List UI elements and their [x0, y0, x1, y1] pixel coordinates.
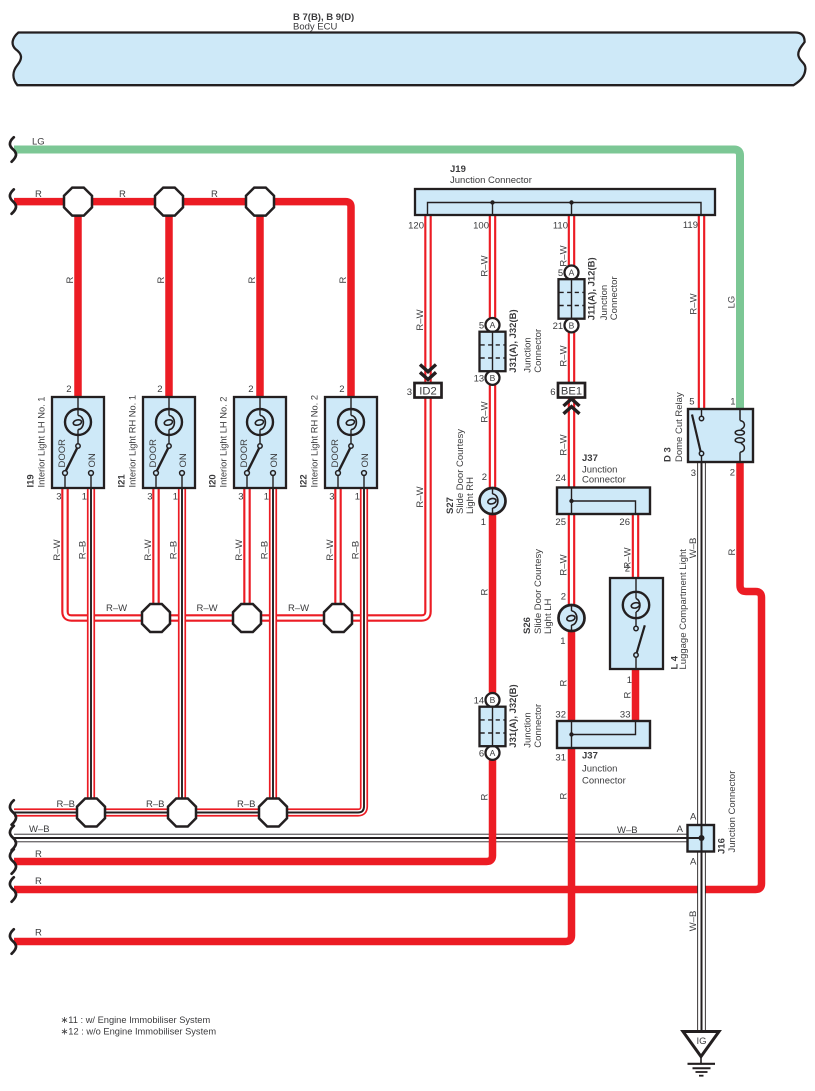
- svg-text:LG: LG: [32, 137, 45, 148]
- svg-text:A: A: [490, 320, 496, 330]
- svg-text:∗12 : w/o Engine Immobiliser S: ∗12 : w/o Engine Immobiliser System: [61, 1027, 217, 1037]
- svg-text:R–B: R–B: [57, 799, 75, 810]
- svg-text:R–B: R–B: [169, 541, 180, 559]
- svg-text:I19: I19: [26, 474, 37, 487]
- svg-text:R–W: R–W: [623, 547, 634, 568]
- svg-text:Junction: Junction: [523, 337, 534, 372]
- svg-text:R–W: R–W: [689, 293, 700, 314]
- svg-text:Connector: Connector: [582, 475, 626, 486]
- svg-text:R–W: R–W: [559, 345, 570, 366]
- svg-text:5: 5: [689, 397, 694, 408]
- svg-text:J16: J16: [717, 838, 728, 854]
- svg-text:R: R: [156, 276, 167, 283]
- svg-text:∗11 : w/ Engine Immobiliser Sy: ∗11 : w/ Engine Immobiliser System: [61, 1015, 211, 1025]
- svg-text:ID2: ID2: [419, 386, 436, 398]
- svg-text:W–B: W–B: [29, 824, 50, 835]
- svg-text:Interior Light LH No. 2: Interior Light LH No. 2: [219, 397, 229, 488]
- svg-text:R–W: R–W: [325, 539, 336, 560]
- svg-text:R: R: [35, 876, 42, 887]
- svg-text:1: 1: [82, 492, 87, 503]
- svg-text:B: B: [490, 373, 496, 383]
- svg-text:R–W: R–W: [559, 245, 570, 266]
- svg-text:119: 119: [683, 220, 698, 231]
- svg-text:Luggage Compartment Light: Luggage Compartment Light: [678, 549, 689, 670]
- svg-text:R–W: R–W: [197, 603, 218, 614]
- svg-text:R: R: [559, 679, 570, 686]
- svg-text:R: R: [480, 588, 491, 595]
- svg-text:Connector: Connector: [533, 704, 544, 748]
- svg-text:110: 110: [553, 221, 568, 232]
- svg-text:W–B: W–B: [688, 538, 699, 559]
- svg-text:5: 5: [479, 321, 484, 332]
- svg-text:21: 21: [553, 321, 564, 332]
- svg-text:2: 2: [66, 384, 71, 395]
- svg-text:R–W: R–W: [106, 603, 127, 614]
- svg-text:A: A: [690, 857, 697, 868]
- svg-text:BE1: BE1: [561, 386, 582, 398]
- svg-text:J37: J37: [582, 453, 598, 464]
- svg-text:R–W: R–W: [480, 255, 491, 276]
- svg-text:A: A: [490, 748, 496, 758]
- svg-text:R: R: [623, 691, 634, 698]
- svg-text:Junction: Junction: [523, 712, 534, 747]
- svg-text:I20: I20: [208, 474, 219, 487]
- svg-text:A: A: [677, 824, 684, 835]
- svg-text:R: R: [211, 189, 218, 200]
- svg-text:Connector: Connector: [582, 776, 626, 787]
- svg-text:R–W: R–W: [288, 603, 309, 614]
- svg-text:R–W: R–W: [559, 554, 570, 575]
- svg-text:6: 6: [550, 387, 555, 398]
- svg-text:32: 32: [555, 710, 566, 721]
- svg-text:R: R: [247, 276, 258, 283]
- svg-text:6: 6: [479, 748, 484, 759]
- svg-text:Junction: Junction: [582, 764, 617, 775]
- svg-text:Interior Light RH No. 1: Interior Light RH No. 1: [128, 395, 138, 488]
- svg-text:DOOR: DOOR: [57, 439, 68, 468]
- svg-text:13: 13: [474, 373, 485, 384]
- svg-text:J31(A), J32(B): J31(A), J32(B): [508, 309, 519, 372]
- svg-text:R: R: [119, 189, 126, 200]
- svg-text:IG: IG: [696, 1036, 706, 1047]
- svg-text:R–W: R–W: [52, 539, 63, 560]
- svg-text:DOOR: DOOR: [239, 439, 250, 468]
- svg-text:2: 2: [157, 384, 162, 395]
- svg-text:ON: ON: [269, 453, 280, 467]
- svg-text:Interior Light RH No. 2: Interior Light RH No. 2: [310, 395, 320, 488]
- svg-text:33: 33: [620, 710, 631, 721]
- svg-text:J19: J19: [450, 164, 466, 175]
- svg-text:R–B: R–B: [146, 799, 164, 810]
- svg-text:R–W: R–W: [415, 309, 426, 330]
- svg-text:R: R: [480, 793, 491, 800]
- svg-text:1: 1: [264, 492, 269, 503]
- svg-text:2: 2: [339, 384, 344, 395]
- svg-text:Connector: Connector: [609, 276, 620, 320]
- svg-text:ON: ON: [178, 453, 189, 467]
- svg-text:S26: S26: [522, 617, 533, 634]
- svg-text:25: 25: [555, 517, 566, 528]
- svg-text:R–W: R–W: [143, 539, 154, 560]
- svg-text:5: 5: [558, 268, 563, 279]
- svg-text:LG: LG: [727, 296, 738, 309]
- svg-text:DOOR: DOOR: [330, 439, 341, 468]
- svg-text:1: 1: [481, 517, 486, 528]
- svg-text:120: 120: [408, 221, 424, 232]
- svg-text:Junction Connector: Junction Connector: [727, 771, 738, 853]
- svg-text:B: B: [569, 321, 575, 331]
- svg-text:R: R: [727, 548, 738, 555]
- svg-text:24: 24: [555, 473, 566, 484]
- svg-text:2: 2: [482, 472, 487, 483]
- svg-text:3: 3: [691, 468, 696, 479]
- svg-text:Light RH: Light RH: [465, 477, 476, 514]
- svg-text:R: R: [35, 849, 42, 860]
- svg-text:R: R: [35, 189, 42, 200]
- svg-text:1: 1: [627, 675, 632, 686]
- svg-text:Dome Cut Relay: Dome Cut Relay: [674, 392, 685, 462]
- svg-text:2: 2: [561, 592, 566, 603]
- svg-text:3: 3: [56, 492, 61, 503]
- svg-text:W–B: W–B: [688, 911, 699, 932]
- svg-text:R: R: [559, 792, 570, 799]
- svg-text:J37: J37: [582, 751, 598, 762]
- svg-text:31: 31: [555, 753, 566, 764]
- svg-text:J11(A), J12(B): J11(A), J12(B): [587, 257, 598, 320]
- svg-text:A: A: [569, 268, 575, 278]
- svg-text:Connector: Connector: [533, 329, 544, 373]
- svg-text:1: 1: [173, 492, 178, 503]
- svg-text:R: R: [35, 928, 42, 939]
- svg-text:A: A: [690, 812, 697, 823]
- svg-text:3: 3: [147, 492, 152, 503]
- svg-text:R: R: [65, 276, 76, 283]
- svg-text:B: B: [490, 695, 496, 705]
- svg-text:1: 1: [730, 397, 735, 408]
- svg-text:2: 2: [730, 468, 735, 479]
- svg-text:J31(A), J32(B): J31(A), J32(B): [508, 684, 519, 747]
- svg-text:I21: I21: [117, 474, 128, 488]
- svg-text:1: 1: [355, 492, 360, 503]
- svg-text:I22: I22: [299, 474, 310, 487]
- svg-text:3: 3: [329, 492, 334, 503]
- svg-text:W–B: W–B: [617, 825, 638, 836]
- svg-text:Junction Connector: Junction Connector: [450, 175, 532, 186]
- svg-text:R–W: R–W: [415, 486, 426, 507]
- svg-text:Body ECU: Body ECU: [293, 22, 337, 33]
- svg-text:Light LH: Light LH: [543, 598, 554, 634]
- svg-text:R–W: R–W: [480, 401, 491, 422]
- svg-text:R–B: R–B: [260, 541, 271, 559]
- svg-text:R–B: R–B: [78, 541, 89, 559]
- svg-text:Interior Light LH No. 1: Interior Light LH No. 1: [37, 397, 47, 488]
- svg-text:R: R: [338, 276, 349, 283]
- svg-text:3: 3: [407, 387, 412, 398]
- svg-text:R–W: R–W: [559, 434, 570, 455]
- svg-text:3: 3: [238, 492, 243, 503]
- svg-text:R–W: R–W: [234, 539, 245, 560]
- svg-text:1: 1: [560, 636, 565, 647]
- svg-text:D 3: D 3: [663, 447, 674, 462]
- svg-text:100: 100: [473, 221, 489, 232]
- svg-text:R–B: R–B: [237, 799, 255, 810]
- svg-text:2: 2: [248, 384, 253, 395]
- svg-text:ON: ON: [87, 453, 98, 467]
- svg-text:ON: ON: [360, 453, 371, 467]
- svg-text:DOOR: DOOR: [148, 439, 159, 468]
- svg-text:R–B: R–B: [351, 541, 362, 559]
- svg-text:26: 26: [619, 517, 630, 528]
- svg-text:14: 14: [474, 696, 485, 707]
